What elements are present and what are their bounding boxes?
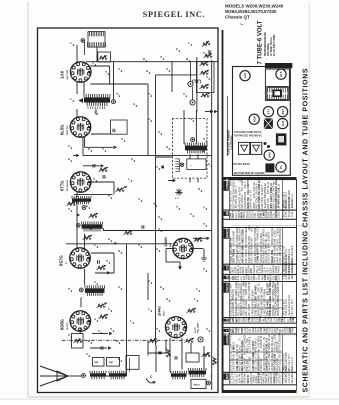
svg-text:FIELD: FIELD	[194, 384, 201, 386]
svg-text:4: 4	[155, 328, 159, 330]
svg-text:Y: Y	[225, 329, 229, 331]
svg-text:TOP INT 456 KC: TOP INT 456 KC	[233, 163, 250, 166]
svg-text:8: 8	[115, 340, 119, 342]
svg-text:MI: MI	[225, 275, 229, 278]
svg-text:7: 7	[93, 244, 97, 246]
svg-text:3: 3	[189, 213, 193, 215]
svg-text:3: 3	[137, 244, 141, 246]
svg-text:2: 2	[132, 103, 136, 105]
svg-text:COI: COI	[225, 265, 229, 270]
svg-text:J: J	[175, 206, 179, 208]
svg-text:W264,W264,W270,57200: W264,W264,W270,57200	[225, 9, 277, 14]
svg-text:5: 5	[175, 48, 179, 50]
svg-text:7 TUBE-6 VOLT: 7 TUBE-6 VOLT	[258, 20, 264, 64]
svg-text:J: J	[105, 260, 109, 262]
svg-text:I.F.: I.F.	[239, 337, 242, 341]
svg-text:3: 3	[189, 118, 193, 120]
svg-text:TWO BAND: TWO BAND	[267, 43, 270, 56]
svg-text:FIRST DET: FIRST DET	[67, 124, 69, 135]
svg-text:3: 3	[67, 208, 71, 210]
svg-text:3: 3	[97, 330, 101, 332]
svg-text:4: 4	[202, 268, 206, 270]
svg-text:3: 3	[182, 93, 186, 95]
svg-text:RESIST: RESIST	[225, 228, 229, 238]
svg-text:8: 8	[185, 58, 189, 60]
svg-text:LOCATIONS: LOCATIONS	[230, 135, 233, 150]
svg-text:PL: PL	[279, 165, 283, 169]
svg-text:6T7: 6T7	[267, 109, 271, 115]
svg-text:1205 1205 1205: 1205 1205 1205	[291, 261, 294, 280]
svg-text:3: 3	[117, 286, 121, 288]
svg-text:4: 4	[155, 166, 159, 168]
svg-text:DIAL LAMP: DIAL LAMP	[197, 322, 200, 333]
svg-text:3: 3	[87, 226, 91, 228]
svg-text:J: J	[104, 71, 108, 73]
svg-text:4: 4	[117, 68, 121, 70]
svg-text:J: J	[202, 223, 206, 225]
svg-text:7: 7	[195, 288, 199, 290]
svg-text:5: 5	[159, 286, 163, 288]
svg-text:5: 5	[147, 280, 151, 282]
svg-text:5: 5	[67, 158, 71, 160]
svg-text:AVC: AVC	[169, 243, 172, 247]
svg-text:MIS: MIS	[225, 374, 229, 379]
svg-text:BOTTOM VIEW OF CHASSIS: BOTTOM VIEW OF CHASSIS	[234, 172, 265, 175]
svg-text:DESCR: DESCR	[278, 209, 281, 218]
svg-text:3: 3	[67, 145, 71, 147]
svg-text:5: 5	[147, 118, 151, 120]
svg-text:4: 4	[92, 178, 96, 180]
svg-text:3: 3	[165, 68, 169, 70]
svg-text:SOCKET: SOCKET	[279, 373, 282, 384]
svg-text:J: J	[120, 138, 124, 140]
svg-text:8: 8	[117, 250, 121, 252]
svg-text:ANT COIL: ANT COIL	[279, 359, 282, 371]
svg-text:4: 4	[85, 353, 89, 355]
svg-text:J: J	[93, 281, 97, 283]
svg-text:7: 7	[107, 308, 111, 310]
svg-text:8: 8	[165, 298, 169, 300]
svg-text:1A6: 1A6	[243, 73, 247, 79]
svg-text:5: 5	[207, 163, 211, 165]
svg-text:...: ...	[190, 163, 193, 167]
svg-text:SPIEGEL INC.: SPIEGEL INC.	[143, 10, 206, 19]
svg-text:J: J	[101, 148, 105, 150]
svg-text:CONDEN: CONDEN	[225, 179, 229, 190]
svg-text:1H4: 1H4	[281, 120, 285, 126]
svg-text:RE: RE	[225, 211, 229, 215]
svg-text:8: 8	[142, 58, 146, 60]
svg-text:6S7G: 6S7G	[59, 255, 64, 266]
svg-text:3: 3	[157, 216, 161, 218]
svg-text:DES: DES	[277, 275, 280, 280]
svg-text:2: 2	[93, 318, 97, 320]
svg-text:R-12 R-12 R-12: R-12 R-12 R-12	[291, 199, 294, 217]
svg-text:J: J	[157, 228, 161, 230]
svg-text:1H4G: 1H4G	[164, 237, 168, 247]
svg-text:HARDWA: HARDWA	[225, 333, 229, 345]
svg-text:· · · · · · · · · · · · · · ·: · · · · · · · · · · · · · · · · · · · · …	[225, 386, 300, 390]
svg-text:TOP PRI OSC PAD 600 KC: TOP PRI OSC PAD 600 KC	[234, 135, 262, 138]
svg-text:4: 4	[152, 203, 156, 205]
svg-text:SOCKET RES 1W GAN: SOCKET RES 1W GAN	[279, 332, 282, 358]
svg-text:TUN GANG COND 456 KC: TUN GANG COND 456 KC	[234, 131, 262, 134]
svg-text:2: 2	[205, 353, 209, 355]
svg-text:J: J	[115, 93, 119, 95]
svg-text:5: 5	[130, 158, 134, 160]
svg-text:TONE KNOB: TONE KNOB	[277, 286, 280, 301]
svg-text:J: J	[202, 138, 206, 140]
svg-text:6S7: 6S7	[281, 109, 285, 115]
svg-text:6D8G: 6D8G	[60, 319, 65, 330]
svg-text:25M: 25M	[109, 362, 113, 364]
svg-text:SUPERHETERODYNE: SUPERHETERODYNE	[265, 32, 267, 56]
svg-text:4: 4	[159, 56, 163, 58]
svg-text:AC-DC BATT OPER.: AC-DC BATT OPER.	[273, 34, 276, 56]
svg-text:WAV: WAV	[277, 280, 280, 286]
svg-text:I.F. PEAK 456 KC.: I.F. PEAK 456 KC.	[270, 36, 273, 56]
svg-text:4: 4	[109, 328, 113, 330]
svg-text:SCHEMATIC AND PARTS LIST INCLU: SCHEMATIC AND PARTS LIST INCLUDING CHASS…	[302, 68, 309, 392]
svg-text:3: 3	[67, 334, 71, 336]
svg-text:4: 4	[205, 76, 209, 78]
svg-text:50M: 50M	[94, 362, 98, 364]
svg-text:7: 7	[69, 42, 73, 44]
svg-text:7: 7	[129, 320, 133, 322]
svg-text:1A6: 1A6	[60, 70, 65, 79]
svg-text:4: 4	[67, 288, 71, 290]
svg-text:2H4G: 2H4G	[158, 306, 162, 316]
svg-text:7: 7	[202, 206, 206, 208]
svg-text:OUTPUT: OUTPUT	[67, 321, 69, 330]
svg-text:2: 2	[155, 248, 159, 250]
svg-text:7: 7	[187, 42, 191, 44]
svg-text:7: 7	[193, 298, 197, 300]
svg-text:MODELS W200,W230,W240: MODELS W200,W230,W240	[225, 4, 284, 9]
svg-text:3: 3	[199, 148, 203, 150]
svg-text:6T7G: 6T7G	[60, 181, 65, 191]
svg-text:OSC–MOD: OSC–MOD	[67, 69, 69, 79]
svg-text:J: J	[91, 62, 95, 64]
svg-text:6D8: 6D8	[252, 116, 256, 122]
svg-text:8 M: 8 M	[292, 318, 295, 322]
svg-text:KNOB: KNOB	[278, 266, 281, 273]
svg-text:6L5G: 6L5G	[60, 125, 65, 135]
svg-text:7: 7	[147, 308, 151, 310]
svg-text:5: 5	[107, 238, 111, 240]
svg-text:↔↔↔↔↔↔↔↔↔↔↔↔↔↔↔↔↔↔↔↔↔↔: ↔↔↔↔↔↔↔↔↔↔↔↔↔↔↔↔↔↔↔↔↔↔	[231, 223, 306, 227]
svg-text:7: 7	[127, 178, 131, 180]
svg-text:Chassis QT: Chassis QT	[225, 15, 250, 20]
svg-text:2: 2	[93, 111, 97, 113]
svg-text:8: 8	[145, 70, 149, 72]
svg-text:RECT: RECT	[164, 310, 166, 316]
svg-text:7: 7	[69, 98, 73, 100]
svg-text:8: 8	[117, 358, 121, 360]
svg-text:8: 8	[165, 146, 169, 148]
svg-text:2: 2	[85, 205, 89, 207]
svg-text:DET AVC AF: DET AVC AF	[66, 179, 69, 191]
svg-text:4: 4	[157, 131, 161, 133]
svg-text:8: 8	[87, 340, 91, 342]
svg-text:8: 8	[197, 188, 201, 190]
svg-text:2: 2	[137, 198, 141, 200]
svg-text:3: 3	[205, 328, 209, 330]
svg-text:05-7 05-7 05-7: 05-7 05-7 05-7	[291, 298, 294, 315]
svg-text:2H4: 2H4	[267, 152, 271, 158]
svg-text:PARTS: PARTS	[225, 283, 229, 292]
svg-text:J: J	[147, 93, 151, 95]
svg-text:4: 4	[202, 52, 206, 54]
svg-text:X: X	[225, 319, 229, 321]
svg-text:PAD: PAD	[292, 328, 295, 333]
svg-text:66-2 66-2 66-2: 66-2 66-2 66-2	[291, 366, 294, 383]
svg-text:J: J	[107, 195, 111, 197]
svg-text:.05 400V ANT COIL .0: .05 400V ANT COIL .0	[278, 184, 281, 209]
svg-text:6L5: 6L5	[279, 71, 283, 77]
svg-text:8: 8	[87, 148, 91, 150]
